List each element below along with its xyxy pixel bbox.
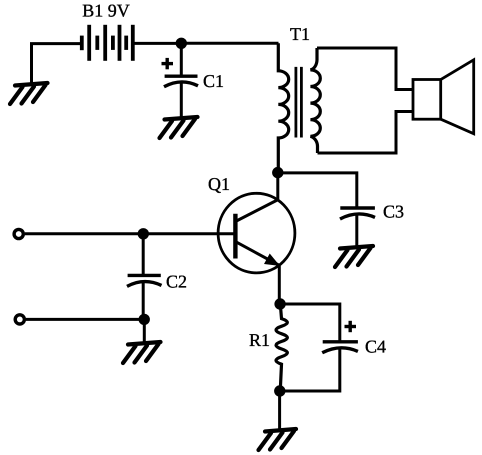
wire (C4 bottom lead to node F) — [280, 348, 340, 391]
wire (battery positive to node A) — [135, 42, 182, 45]
node A (junction dot at battery/C1) — [176, 38, 187, 49]
transistor Q1 emitter arrow — [265, 254, 279, 265]
transistor Q1 emitter line — [235, 242, 279, 266]
wire (C2 bottom lead) — [142, 282, 145, 319]
node F (junction dot at R1/C4 bottom) — [274, 385, 285, 396]
wire (node E to C4 top) — [280, 304, 340, 341]
transistor Q1 collector line — [235, 200, 278, 222]
resistor R1 — [276, 304, 287, 390]
node C (junction dot at C2 top) — [138, 228, 149, 239]
wire (node F to ground) — [278, 391, 281, 430]
wire (node B to C3) — [278, 173, 357, 207]
svg-text:B1 9V: B1 9V — [82, 1, 130, 21]
speaker body — [413, 80, 441, 120]
capacitor C1 plus sign — [162, 58, 174, 69]
node B (junction dot primary bottom / collector) — [272, 167, 283, 178]
transistor Q1 base bar — [233, 214, 237, 259]
wire (C3 to ground) — [355, 215, 358, 247]
wire (secondary top to speaker) — [317, 48, 413, 90]
input terminal (top) — [14, 229, 23, 238]
svg-text:Q1: Q1 — [208, 174, 230, 194]
wire (emitter lead down) — [278, 266, 281, 304]
speaker horn — [441, 60, 474, 134]
capacitor C4 plus sign — [345, 321, 357, 332]
svg-text:C4: C4 — [365, 336, 386, 356]
wire (node D to ground) — [143, 319, 146, 343]
ground (below C1) — [160, 117, 198, 138]
wire (secondary bottom to speaker) — [318, 112, 414, 154]
capacitor C4 — [322, 342, 358, 353]
transistor Q1 circle — [218, 193, 295, 273]
svg-text:T1: T1 — [290, 24, 310, 44]
input terminal (bottom) — [15, 315, 24, 324]
wire (C1 top lead) — [180, 43, 183, 76]
wire (C1 bottom lead) — [180, 83, 183, 118]
capacitor C3 — [340, 208, 375, 219]
svg-text:C1: C1 — [203, 71, 224, 91]
node D (junction dot at C2 bottom) — [139, 314, 150, 325]
ground (below C2) — [123, 342, 161, 363]
svg-text:R1: R1 — [249, 330, 270, 350]
svg-text:C2: C2 — [166, 272, 187, 292]
transformer T1 primary winding — [278, 43, 288, 168]
wire (collector lead) — [276, 173, 279, 200]
node E (junction dot at emitter/R1/C4 top) — [274, 298, 285, 309]
transformer T1 secondary winding — [310, 48, 320, 153]
ground (battery negative) — [10, 83, 48, 104]
ground (below C3) — [335, 246, 373, 267]
capacitor C1 — [164, 76, 198, 87]
wire (battery negative to ground, top-left) — [32, 44, 81, 85]
wire (node A to transformer primary) — [181, 42, 278, 45]
ground (emitter, bottom) — [259, 429, 297, 450]
wire (C2 top lead) — [142, 234, 145, 275]
transformer T1 core — [296, 67, 302, 138]
wire (input bottom terminal to node D) — [26, 318, 144, 321]
capacitor C2 — [127, 275, 162, 286]
svg-text:C3: C3 — [383, 202, 404, 222]
wire (input top terminal to base) — [25, 232, 236, 235]
battery B1 — [82, 25, 133, 61]
